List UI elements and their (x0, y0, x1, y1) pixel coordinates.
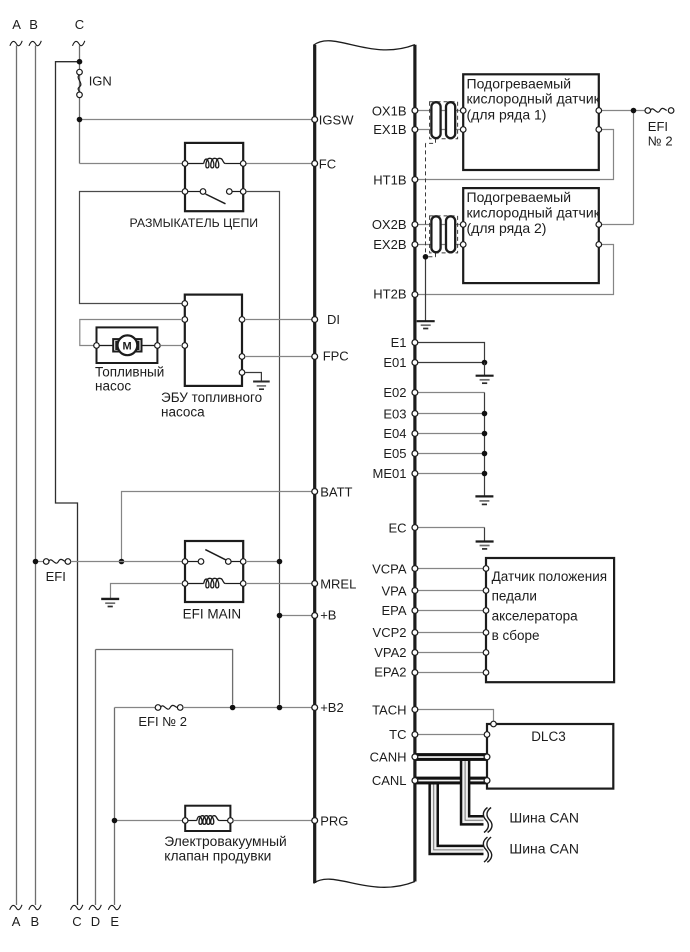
DLC3 pin TC (484, 732, 490, 738)
heated oxygen sensor bank1 box (463, 74, 599, 170)
svg-text:D: D (91, 914, 100, 929)
svg-text:CANH: CANH (370, 750, 407, 765)
relay РАЗМЫКАТЕЛЬ ЦЕПИ box (185, 143, 243, 211)
wire OX1B (417, 110, 464, 112)
relay EFI MAIN switch (187, 561, 198, 563)
svg-text:VPA: VPA (381, 584, 406, 599)
fuel pump ECU box (185, 295, 242, 386)
wire EX1B (417, 129, 464, 131)
wire sensor2 heater- to HT2B (417, 245, 614, 295)
ECU left edge (313, 45, 316, 883)
junction dot E01 (482, 360, 488, 366)
svg-text:B: B (31, 914, 40, 929)
svg-text:IGN: IGN (89, 74, 112, 89)
junction dot E03 (482, 411, 488, 417)
junction dot BATT tap on EFI wire (119, 559, 125, 565)
wire DI (245, 319, 313, 321)
fuel pump ECU pin 1 (182, 301, 188, 307)
svg-text:Шина CAN: Шина CAN (509, 841, 579, 857)
wire EPA (417, 610, 487, 612)
ECU pin E01 (412, 360, 418, 366)
svg-text:EFI № 2: EFI № 2 (138, 714, 187, 729)
svg-text:в сборе: в сборе (492, 628, 540, 643)
svg-text:EFI: EFI (648, 119, 668, 134)
ECU pin E04 (412, 431, 418, 437)
svg-text:VCP2: VCP2 (373, 625, 407, 640)
fuse EFI № 2 (top right) (650, 108, 666, 112)
svg-text:E04: E04 (383, 426, 406, 441)
sensor1 pin left 2 (460, 127, 466, 133)
wire fuel pump ECU ground (245, 373, 262, 382)
ECU pin CANL (412, 778, 418, 784)
break symbol line A top (10, 41, 22, 46)
svg-text:кислородный датчик: кислородный датчик (467, 91, 601, 107)
fuel pump ECU pin 3 (182, 343, 188, 349)
svg-text:C: C (72, 914, 81, 929)
svg-text:FC: FC (319, 156, 336, 171)
wire +B2 with fuse EFI № 2 (115, 707, 156, 709)
break symbol line D bottom (89, 905, 101, 910)
ECU right edge (413, 45, 416, 882)
svg-text:DLC3: DLC3 (531, 729, 566, 744)
svg-text:IGSW: IGSW (319, 113, 354, 128)
svg-text:ЭБУ топливного: ЭБУ топливного (161, 390, 262, 405)
wire ME01 (417, 473, 485, 475)
svg-text:VPA2: VPA2 (374, 645, 406, 660)
DLC3 pin TACH (491, 721, 497, 727)
svg-text:+B2: +B2 (320, 700, 344, 715)
svg-text:насос: насос (95, 379, 131, 394)
fuel pump ECU pin DI (239, 317, 245, 323)
break symbol line C top (73, 41, 85, 46)
fuel pump box (97, 327, 158, 363)
junction dot E05 (482, 451, 488, 457)
ECU pin VPA (412, 588, 418, 594)
ECU pin EC (412, 525, 418, 531)
svg-text:E: E (110, 914, 119, 929)
svg-text:OX1B: OX1B (372, 103, 407, 118)
ECU pin E02 (412, 390, 418, 396)
junction dot on +B line at switch row (277, 559, 283, 565)
svg-text:E02: E02 (383, 385, 406, 400)
sensor2 pin right 1 (596, 222, 602, 228)
svg-text:Электровакуумный: Электровакуумный (164, 834, 286, 849)
wire OX2B (417, 224, 464, 226)
relay switch contacts (187, 191, 200, 193)
CAN bus branch 2 (from CANL down) (434, 781, 484, 850)
ground (EFI MAIN coil) (101, 599, 119, 607)
shield drain wire to ground (425, 257, 427, 321)
ECU pin TC (412, 732, 418, 738)
ECU pin OX2B (412, 222, 418, 228)
wire E01 (417, 362, 485, 364)
ECU top wavy edge (314, 41, 415, 50)
wire E04 (417, 433, 485, 435)
svg-text:№ 2: № 2 (648, 134, 673, 149)
ECU pin EX2B (412, 242, 418, 248)
svg-text:E05: E05 (383, 446, 406, 461)
wire EPA2 (417, 672, 487, 674)
wire PRG from line E (115, 820, 183, 822)
heated oxygen sensor bank2 box (463, 188, 599, 283)
break symbol line A bottom (10, 905, 22, 910)
fuel pump ECU pin gnd (239, 370, 245, 376)
wire bus line B (vertical) (35, 46, 37, 906)
ECU pin CANH (412, 754, 418, 760)
ECU pin ME01 (412, 471, 418, 477)
fuel pump motor M (99, 345, 115, 347)
ECU pin VCP2 (412, 630, 418, 636)
svg-text:HT1B: HT1B (373, 172, 406, 187)
wire EFI fuse to EFI MAIN relay (71, 561, 183, 563)
wire BATT (122, 492, 314, 562)
ECU pin FPC (312, 354, 318, 360)
break symbol line B top (29, 41, 41, 46)
wire VCP2 (417, 632, 487, 634)
shielded connector pair 1 dashed shield (426, 102, 458, 144)
junction dot shield drain (423, 254, 429, 260)
ECU pin HT2B (412, 292, 418, 298)
svg-text:акселератора: акселератора (492, 608, 579, 623)
wire EFI MAIN coil to ground (111, 584, 183, 599)
sensor1 pin left 1 (460, 108, 466, 114)
wire VPA (417, 590, 487, 592)
CAN bus branch 1 (from CANH down) (465, 758, 483, 821)
wire TC (417, 734, 488, 736)
relay coil (circuit opening relay) (204, 158, 226, 168)
svg-text:(для ряда 2): (для ряда 2) (467, 220, 547, 236)
vertical wire EFI No2 node to sensor2 heater (633, 111, 635, 225)
ECU pin +B2 (312, 705, 318, 711)
ground (E02 group) (475, 496, 493, 504)
wire EX2B (417, 244, 464, 246)
break squiggle CAN bus 2 (483, 837, 491, 862)
wire bus line C top (vertical, feeds IGN fuse) (79, 46, 81, 164)
junction dot PRG on line E (112, 818, 118, 824)
relay EFI MAIN box (185, 541, 243, 602)
svg-text:Датчик положения: Датчик положения (492, 569, 608, 584)
wire sensor1 heater- to HT1B (417, 130, 614, 180)
wire E05 (417, 453, 485, 455)
ground (shield drain) (417, 321, 435, 328)
ground (EC) (476, 542, 494, 549)
wire IGSW from line C to ECU (80, 119, 314, 121)
svg-text:VCPA: VCPA (372, 562, 407, 577)
svg-text:TACH: TACH (372, 702, 406, 717)
fuel pump ECU pin FPC (239, 354, 245, 360)
wire sensor1 heater+ to EFI No2 fuse (599, 110, 645, 112)
ECU pin PRG (312, 818, 318, 824)
ECU pin EX1B (412, 127, 418, 133)
ECU pin MREL (312, 581, 318, 587)
svg-text:EFI MAIN: EFI MAIN (183, 606, 242, 621)
ECU pin E03 (412, 411, 418, 417)
fuse EFI (36, 561, 44, 563)
svg-text:PRG: PRG (320, 813, 348, 828)
wire E01 ground stem (484, 363, 486, 376)
svg-text:+B: +B (320, 608, 336, 623)
svg-text:EPA: EPA (381, 603, 406, 618)
wire bus line D (96, 650, 233, 705)
ECU pin TACH (412, 707, 418, 713)
svg-text:A: A (12, 17, 21, 32)
ECU pin E05 (412, 451, 418, 457)
svg-text:BATT: BATT (320, 485, 352, 500)
svg-text:клапан продувки: клапан продувки (164, 848, 271, 863)
svg-text:ME01: ME01 (373, 466, 407, 481)
ECU pin VPA2 (412, 650, 418, 656)
sensor1 pin right 1 (596, 108, 602, 114)
wire E02 (417, 392, 485, 394)
svg-text:Подогреваемый: Подогреваемый (467, 189, 572, 205)
ECU bottom wavy edge (314, 879, 415, 887)
wire sensor2 heater+ from EFI No2 vertical (599, 224, 634, 226)
svg-text:(для ряда 1): (для ряда 1) (467, 106, 547, 122)
svg-text:MREL: MREL (320, 576, 356, 591)
break symbol line B bottom (29, 905, 41, 910)
ground (fuel pump ECU) (253, 382, 270, 390)
svg-text:Топливный: Топливный (95, 365, 164, 380)
junction dot E04 (482, 431, 488, 437)
svg-text:EX2B: EX2B (373, 237, 406, 252)
svg-text:TC: TC (389, 727, 406, 742)
sensor2 pin left 1 (460, 222, 466, 228)
junction dot EFI fuse on line B (33, 559, 39, 565)
svg-text:Подогреваемый: Подогреваемый (467, 75, 572, 91)
svg-text:EPA2: EPA2 (374, 665, 406, 680)
ECU pin IGSW (312, 117, 318, 123)
svg-text:M: M (123, 340, 132, 352)
connector capsule pair 1 (431, 102, 440, 138)
break squiggle CAN bus 1 (483, 808, 492, 833)
relay EFI MAIN coil (204, 578, 226, 588)
break symbol line E bottom (108, 905, 120, 910)
ECU pin EPA2 (412, 670, 418, 676)
svg-text:РАЗМЫКАТЕЛЬ ЦЕПИ: РАЗМЫКАТЕЛЬ ЦЕПИ (130, 216, 259, 230)
fuse IGN (78, 75, 81, 97)
wire EFI MAIN switch to +B line (246, 561, 280, 563)
junction dot +B (277, 613, 283, 619)
svg-text:E03: E03 (383, 406, 406, 421)
wire VPA2 (417, 652, 487, 654)
svg-text:EC: EC (388, 520, 406, 535)
wire EC (417, 527, 485, 529)
ECU pin +B (312, 613, 318, 619)
DLC3 pin CANL (484, 778, 490, 784)
ECU pin BATT (312, 489, 318, 495)
ECU pin OX1B (412, 108, 418, 114)
svg-text:DI: DI (327, 312, 340, 327)
wire TACH (417, 710, 494, 723)
wire VCPA (417, 568, 487, 570)
wire bus line E (114, 708, 116, 906)
CAN bus CANH wire (415, 753, 487, 761)
svg-text:педали: педали (492, 588, 537, 603)
ECU pin EPA (412, 608, 418, 614)
svg-text:кислородный датчик: кислородный датчик (467, 204, 601, 220)
wire E1 (417, 343, 485, 363)
DLC3 pin CANH (484, 754, 490, 760)
purge valve (Электровакуумный клапан продувки) (185, 806, 230, 831)
connector capsule pair 2 (431, 216, 440, 252)
wire fuel pump loop (80, 320, 182, 346)
svg-text:CANL: CANL (372, 773, 407, 788)
break symbol line C bottom (71, 905, 83, 910)
svg-text:FPC: FPC (323, 349, 349, 364)
sensor2 pin right 2 (596, 242, 602, 248)
sensor1 pin right 2 (596, 127, 602, 133)
wire relay switch right to +B distribution line (246, 192, 280, 705)
junction dot EFI No2 node (631, 108, 637, 114)
svg-text:HT2B: HT2B (373, 287, 406, 302)
DLC3 box (487, 724, 613, 789)
ECU pin VCPA (412, 566, 418, 572)
junction dot C / feed branch (77, 59, 83, 65)
svg-text:C: C (75, 17, 84, 32)
wire relay switch to fuel pump ECU pin1 (80, 192, 183, 304)
fuel pump ECU pin 2 (182, 317, 188, 323)
wire purge valve to PRG (233, 820, 313, 822)
sensor2 pin left 2 (460, 242, 466, 248)
svg-text:EX1B: EX1B (373, 122, 406, 137)
shielded connector pair 2 dashed shield (426, 143, 458, 256)
ground (E01) (476, 376, 494, 384)
junction dot +B distribution on +B2 wire (277, 705, 283, 711)
wire branch from C to black feed line (56, 62, 80, 905)
junction dot D line on +B2 wire (230, 705, 236, 711)
ECU pin E1 (412, 340, 418, 346)
svg-text:E01: E01 (383, 355, 406, 370)
svg-text:Шина CAN: Шина CAN (509, 810, 579, 826)
wire FC from line C to ECU (80, 163, 314, 165)
wire MREL (246, 583, 313, 585)
wire fuel pump to ECU pin3 (160, 345, 182, 347)
wire E03 (417, 413, 485, 415)
ECU pin DI (312, 317, 318, 323)
wire FPC (245, 356, 313, 358)
wire +B (280, 615, 314, 617)
wire bus line A (vertical, left) (16, 46, 18, 906)
accelerator pedal position sensor box (486, 558, 614, 682)
svg-text:OX2B: OX2B (372, 217, 407, 232)
svg-text:B: B (29, 17, 38, 32)
svg-text:E1: E1 (391, 335, 407, 350)
ECU pin HT1B (412, 177, 418, 183)
svg-text:A: A (12, 914, 21, 929)
svg-text:насоса: насоса (161, 404, 205, 419)
junction dot ME01 (482, 471, 488, 477)
junction dot IGSW tap (77, 117, 83, 123)
CAN bus CANL wire (415, 777, 487, 785)
ECU pin FC (312, 161, 318, 167)
svg-text:EFI: EFI (46, 569, 66, 584)
